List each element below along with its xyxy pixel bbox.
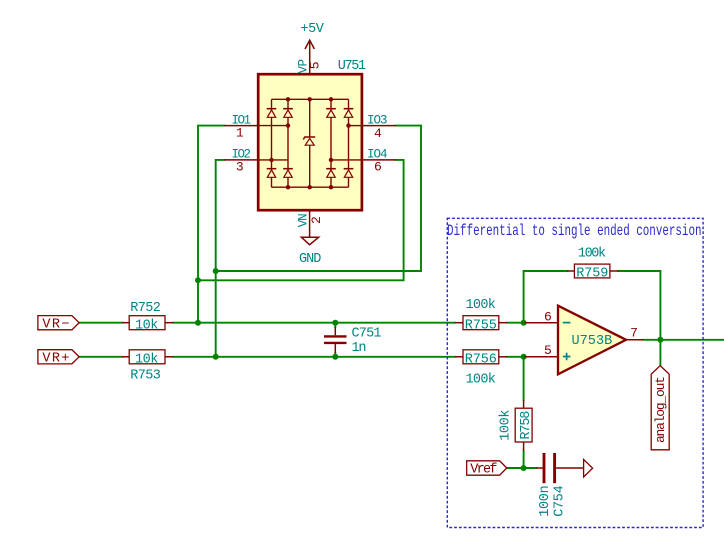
wire column A [271,99,273,187]
wire top rail VP [272,98,349,100]
junction internal bottom rail B [286,185,290,189]
resistor R755 [455,316,507,330]
svg-text:100k: 100k [466,372,496,387]
junction internal top rail B [286,97,290,101]
wire column B [287,99,289,187]
diode D-C-top [326,109,336,118]
wire VR+ to R753 [79,356,122,358]
svg-text:Differential to single ended c: Differential to single ended conversion [447,222,702,240]
junction inverting input node [521,320,527,326]
diode D-D-top [344,109,354,118]
global label VR+ [38,350,79,367]
svg-text:R756: R756 [465,353,497,368]
wire R759 to output node [618,271,660,340]
svg-text:10k: 10k [135,319,158,334]
svg-text:10k: 10k [135,353,158,368]
svg-text:R759: R759 [576,266,608,281]
svg-text:R753: R753 [130,368,161,383]
resistor R752 [122,316,173,330]
wire IO2 internal [258,159,288,161]
diode D-C-bot [326,169,336,178]
diode D-A-bot [267,169,277,178]
pin 1 IO1 [224,125,258,127]
pin 4 IO3 [362,125,396,127]
power GND symbol [301,237,318,244]
diode D-D-bot [344,169,354,178]
junction non-inverting input node [521,354,527,360]
junction output node [657,337,663,343]
junction IO3-D [346,123,350,127]
unconnected hierarchical pin arrow after C754 [584,460,593,478]
svg-text:5: 5 [544,343,552,358]
pin 7 output [626,339,643,341]
svg-text:7: 7 [630,325,638,340]
op-amp U753B [525,306,643,375]
resistor R756 [455,350,507,364]
global label VR- [38,316,79,333]
svg-text:1n: 1n [352,341,367,356]
svg-text:VR+: VR+ [42,352,69,367]
wire C751 top stub [334,323,336,327]
junction internal top rail center [308,97,312,101]
power +5V symbol [305,40,314,49]
svg-text:100k: 100k [578,246,606,261]
svg-text:6: 6 [374,160,382,175]
svg-text:Vref: Vref [470,463,497,478]
wire IO4 net to node A [198,160,404,280]
wire R758 to Vref node [523,450,525,468]
wire IO3 net to node B [216,126,421,271]
global label Vref [467,461,507,478]
U751 body box [258,74,362,210]
svg-text:6: 6 [544,310,552,325]
svg-text:5: 5 [308,61,323,69]
resistor R758 [515,400,532,451]
wire center column [309,99,311,187]
wire C751 bottom stub [334,353,336,357]
diode D-B-top [283,109,293,118]
wire IO4 internal [331,159,362,161]
svg-text:R758: R758 [519,411,534,440]
svg-text:2: 2 [309,216,324,224]
pin 6 inverting input [525,322,559,324]
wire IO3 internal [349,125,362,127]
wire output node to analog_out label [659,340,661,366]
junction Vref node [521,465,527,471]
junction internal bottom rail C [329,185,333,189]
wire VR- to R752 [79,322,122,324]
junction R753 output row2 [213,354,219,360]
minus mark pin6 [563,322,571,324]
svg-text:1: 1 [236,125,244,140]
pin 6 IO4 [362,159,396,161]
global label analog_out [651,366,669,450]
dashed note box [447,218,703,527]
wire R753 to R756 row2 [173,356,455,358]
junction R752 output row1 [195,320,201,326]
resistor R753 [122,350,173,364]
junction internal bottom rail center [308,185,312,189]
svg-text:100k: 100k [466,298,496,313]
wire IO1 net down to row1 [198,126,224,323]
svg-text:4: 4 [374,126,382,141]
junction IO1-B [286,123,290,127]
wire Vref label to C754 [507,467,537,469]
wire pin5 node down to R758 [523,357,525,400]
wire feedback from inverting node to R759 [524,271,568,323]
plus mark pin5 [563,353,571,361]
wire R752 to R755 row1 [173,322,455,324]
junction C751 top [332,320,338,326]
diode D-A-top [267,109,277,118]
JUNCTIONS [195,268,663,471]
wire bottom rail VN [272,186,349,188]
junction node B at x215.7 [213,268,219,274]
wire column C [330,99,332,187]
svg-text:R755: R755 [465,319,497,334]
pin 5 non-inverting input [525,356,559,358]
svg-text:3: 3 [236,159,244,174]
pin 2 VN [309,210,311,237]
svg-text:100n: 100n [538,485,553,517]
svg-text:100k: 100k [499,410,514,441]
wire output to sheet edge [643,339,724,341]
resistor R759 [567,264,618,278]
svg-text:VR−: VR− [42,317,69,332]
junction node A at x198 [195,277,201,283]
svg-text:GND: GND [299,252,321,267]
svg-text:+5V: +5V [300,22,324,37]
svg-text:U753B: U753B [572,334,613,349]
junction IO4-C [329,158,333,162]
diode D-B-bot [283,169,293,178]
wire column D [348,99,350,187]
wire R755 to op-amp pin6 [507,322,525,324]
diode array U751 [224,40,395,237]
junction C751 bottom [332,354,338,360]
svg-text:C751: C751 [352,326,382,341]
capacitor C751 [324,327,347,353]
capacitor C754 [537,453,584,483]
wire IO1 internal [258,125,288,127]
pin 5 VP [309,40,311,74]
wire R756 to op-amp pin5 [507,356,525,358]
svg-text:analog_out: analog_out [653,376,668,443]
svg-text:C754: C754 [553,485,568,517]
zener diode center [303,137,315,145]
pin 3 IO2 [224,159,258,161]
svg-text:U751: U751 [338,59,366,74]
wire IO2 net down to row2 [216,160,225,357]
junction IO2-A [269,158,273,162]
junction internal top rail C [329,97,333,101]
svg-text:R752: R752 [130,301,161,316]
